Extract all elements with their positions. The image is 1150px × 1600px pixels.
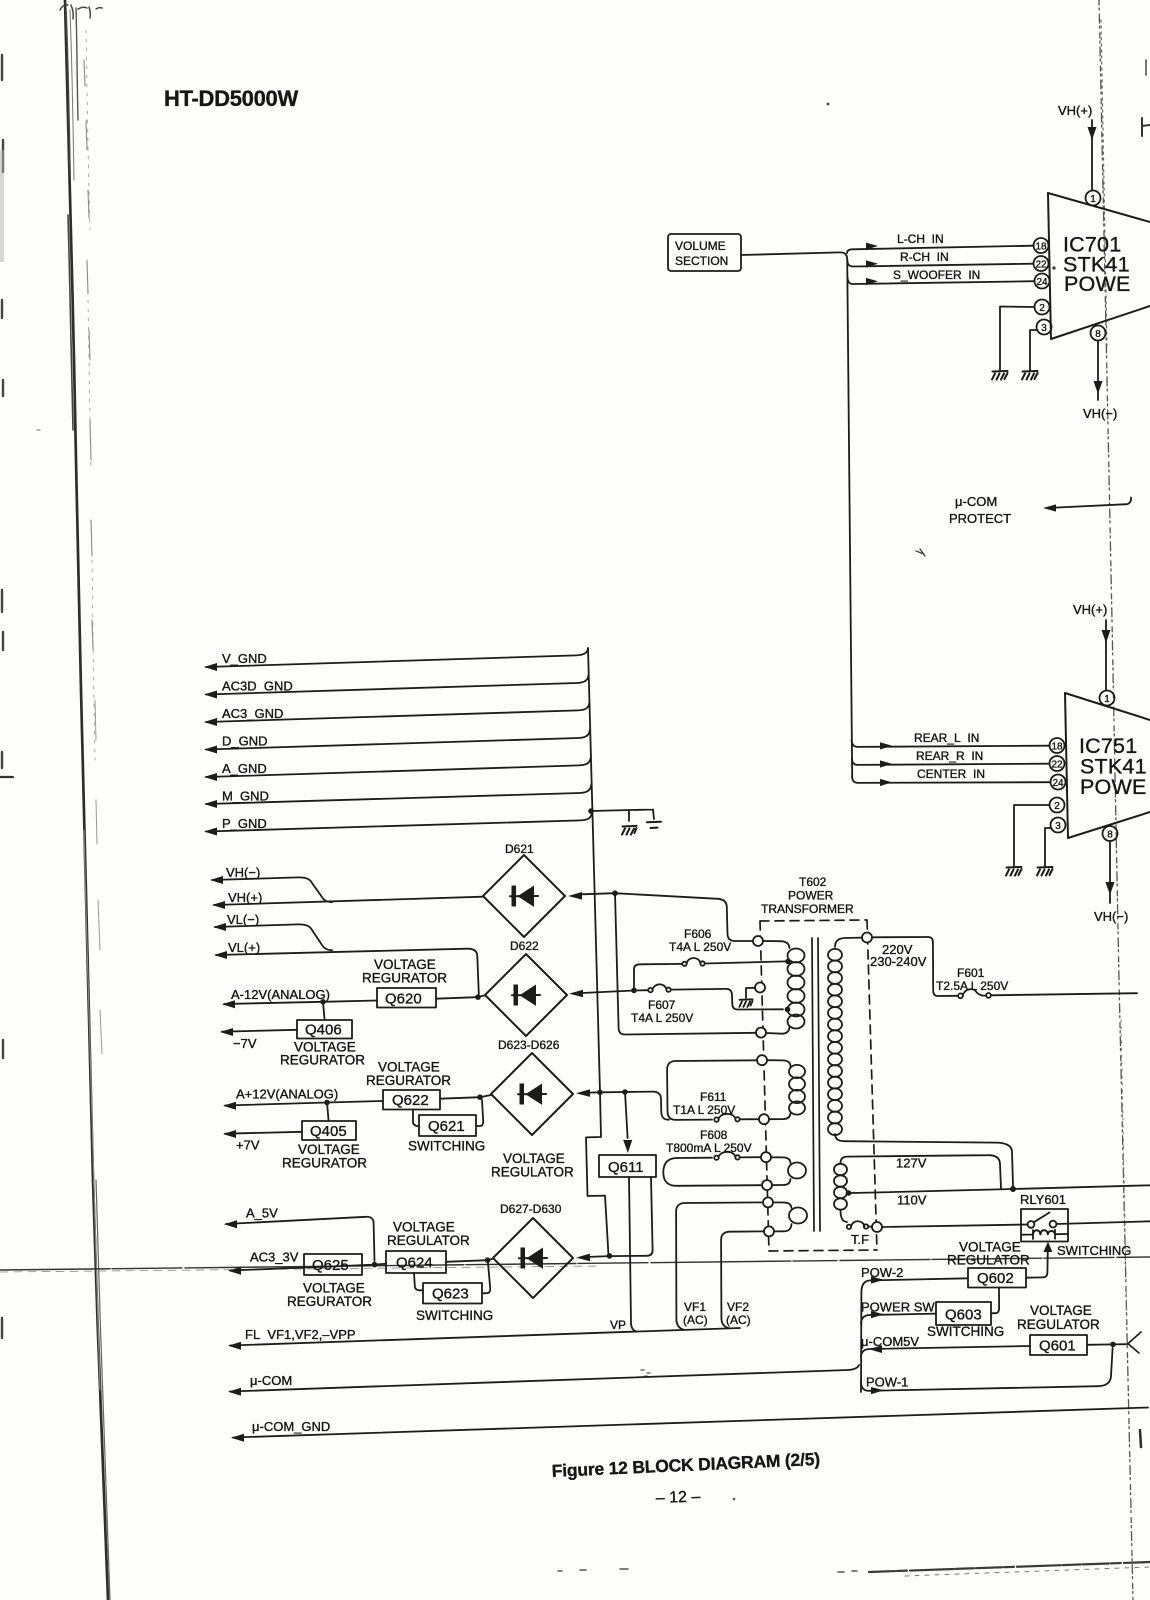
transformer winding section F608: [771, 1157, 806, 1185]
transformer winding section VF: [773, 1202, 807, 1231]
IC751 pin 22: [1050, 756, 1065, 771]
net V_GND: [204, 648, 588, 671]
svg-text:−7V: −7V: [233, 1036, 257, 1051]
fuse F608: [666, 1128, 761, 1160]
earth ground right: [647, 822, 661, 828]
wire D623 AC input: [576, 1089, 669, 1119]
wire Q611 to D627 bridge: [609, 1177, 653, 1256]
net VH(-) from IC751 pin 8: [1094, 841, 1128, 924]
node winding tap for F606: [785, 959, 791, 965]
voltage regulator Q624: [386, 1220, 470, 1274]
bridge rectifier D621: [483, 842, 565, 937]
fuse F601: [936, 966, 1008, 998]
svg-text:Q623: Q623: [432, 1286, 469, 1303]
node 110V tap: [846, 1190, 858, 1196]
IC751 pin 18: [1050, 738, 1065, 753]
svg-text:VL(−): VL(−): [227, 912, 259, 927]
net VP from Q611: [610, 1177, 637, 1332]
wire R-CH IN to pin 22: [847, 250, 1033, 268]
svg-text:VOLUME: VOLUME: [675, 239, 726, 253]
wire Q622 to D623: [440, 1095, 491, 1099]
transformer terminal T2: [755, 983, 765, 993]
wire F611 loop upper arm from transformer: [667, 1060, 757, 1120]
net VH(-) output: [210, 865, 332, 902]
svg-text:POW-1: POW-1: [866, 1375, 908, 1390]
node D622 DC junction: [475, 994, 481, 1000]
svg-text:REGURATOR: REGURATOR: [282, 1156, 367, 1171]
svg-text:18: 18: [1051, 742, 1063, 753]
IC701 pin 1: [1086, 191, 1101, 206]
svg-text:110V: 110V: [897, 1193, 927, 1208]
svg-text:RLY601: RLY601: [1020, 1192, 1066, 1207]
svg-text:2: 2: [1054, 801, 1060, 812]
svg-text:μ-COM: μ-COM: [250, 1373, 292, 1388]
wire trunk branch to REAR_L: [852, 731, 1050, 750]
transformer terminal T1: [753, 936, 763, 946]
svg-text:REGURATOR: REGURATOR: [366, 1073, 451, 1088]
svg-text:24: 24: [1052, 778, 1064, 789]
svg-text:POWER SW: POWER SW: [861, 1300, 935, 1315]
IC701 pin 8: [1091, 326, 1106, 341]
transformer winding section F611: [767, 1060, 805, 1119]
transformer terminal T8: [763, 1197, 773, 1207]
transformer terminal T4: [757, 1055, 767, 1065]
wire Q620 to D622: [436, 995, 485, 998]
net VL(+) output: [214, 940, 479, 994]
svg-text:Q624: Q624: [396, 1255, 433, 1272]
voltage regulator Q622: [366, 1060, 451, 1110]
bridge rectifier D627-D630: [493, 1202, 573, 1298]
svg-text:T.F: T.F: [851, 1232, 869, 1247]
svg-text:+7V: +7V: [236, 1138, 260, 1153]
wire trunk branch to REAR_R: [852, 749, 1050, 768]
wire D621 AC input from transformer: [568, 892, 753, 941]
svg-text:M_GND: M_GND: [222, 789, 269, 804]
IC751 pin 1: [1100, 691, 1115, 706]
voltage regulator Q625: [228, 1250, 375, 1310]
svg-text:REGURATOR: REGURATOR: [362, 971, 447, 986]
transformer core: [812, 938, 820, 1231]
transformer terminal T.F out: [872, 1222, 882, 1232]
svg-text:T800mA L 250V: T800mA L 250V: [666, 1141, 752, 1155]
wire D621 second AC leg to transformer: [615, 893, 756, 1034]
net A-12V(ANALOG): [222, 987, 377, 1008]
wire VF1 from transformer: [676, 1202, 763, 1329]
svg-text:D_GND: D_GND: [222, 734, 268, 749]
ground at IC701 pin 3: [1022, 371, 1038, 380]
net VH(+) supply to IC751 pin 1: [1073, 602, 1111, 690]
svg-text:VH(+): VH(+): [228, 890, 262, 905]
voltage regulator Q405: [282, 1103, 367, 1171]
transformer terminal T7: [762, 1180, 772, 1190]
net mu-COM: [228, 1292, 861, 1396]
wire S_WOOFER IN to pin 24: [848, 268, 1035, 285]
wire Q602 to relay switching arrow: [1026, 1242, 1131, 1278]
net +7V: [223, 1130, 302, 1153]
svg-text:F601: F601: [957, 966, 985, 980]
relay RLY601: [882, 1192, 1150, 1242]
IC701 pin 3: [1037, 320, 1052, 335]
node A_5V AC3_3V junction: [372, 1262, 378, 1268]
svg-text:18: 18: [1035, 242, 1047, 253]
svg-text:8: 8: [1107, 830, 1113, 841]
transformer secondary winding 220V: [828, 938, 1013, 1186]
ground at IC751 pin 2: [1006, 867, 1022, 876]
wire 220V mains input with fuse F601: [870, 937, 1137, 996]
IC701 pin 3 ground wire: [1030, 330, 1038, 370]
net A_GND: [204, 758, 591, 781]
IC701 pin 18: [1034, 238, 1049, 253]
svg-text:F611: F611: [700, 1090, 727, 1104]
svg-text:VOLTAGE: VOLTAGE: [1030, 1303, 1092, 1318]
svg-text:A-12V(ANALOG): A-12V(ANALOG): [231, 987, 330, 1002]
fuse T.F: [847, 1221, 872, 1247]
svg-text:24: 24: [1036, 277, 1048, 288]
wire D627 AC input arrow: [576, 1254, 609, 1262]
net AC3D_GND: [204, 675, 589, 699]
IC751 pin 2 ground wire: [1014, 805, 1050, 866]
svg-text:SECTION: SECTION: [675, 254, 728, 268]
svg-text:F608: F608: [700, 1128, 728, 1142]
svg-text:HT-DD5000W: HT-DD5000W: [164, 86, 298, 111]
svg-text:REAR_R IN: REAR_R IN: [916, 749, 983, 763]
svg-text:Q602: Q602: [977, 1270, 1014, 1287]
svg-text:REGULATOR: REGULATOR: [947, 1253, 1030, 1268]
svg-text:REGURATOR: REGURATOR: [280, 1053, 365, 1068]
svg-text:Q406: Q406: [305, 1022, 342, 1039]
svg-text:VF2: VF2: [727, 1300, 749, 1314]
net mu-COM5V branch: [861, 1334, 1030, 1357]
svg-text:T4A L 250V: T4A L 250V: [631, 1011, 693, 1025]
svg-text:SWITCHING: SWITCHING: [416, 1308, 493, 1323]
node D623 line to ground trunk: [597, 1090, 603, 1096]
svg-text:FL VF1,VF2,–VPP: FL VF1,VF2,–VPP: [245, 1327, 356, 1342]
svg-text:Q625: Q625: [312, 1257, 349, 1274]
IC751 pin 24: [1051, 775, 1066, 790]
connector break symbol: [1128, 1332, 1141, 1353]
svg-text:POWE: POWE: [1064, 272, 1131, 296]
svg-text:VP: VP: [610, 1318, 626, 1332]
node A+12V junction: [324, 1100, 330, 1106]
svg-text:SWITCHING: SWITCHING: [927, 1324, 1004, 1339]
net POW-1 branch: [861, 1348, 1113, 1394]
net VH(+) supply to IC701 pin 1: [1058, 103, 1097, 190]
wire F608 loop with bracket: [663, 1158, 760, 1186]
svg-text:VH(−): VH(−): [1094, 909, 1128, 924]
svg-text:Q601: Q601: [1039, 1338, 1076, 1355]
svg-text:T602: T602: [799, 875, 827, 889]
svg-text:CENTER IN: CENTER IN: [917, 767, 985, 781]
op-amp power amplifier IC751 STK41 POWER: [1065, 693, 1150, 838]
svg-text:μ-COM: μ-COM: [955, 494, 997, 509]
svg-text:8: 8: [1095, 329, 1101, 340]
chassis ground left: [622, 826, 637, 835]
wire VF2 from transformer: [721, 1231, 764, 1328]
svg-text:PROTECT: PROTECT: [949, 511, 1011, 526]
svg-text:Q622: Q622: [392, 1092, 429, 1109]
svg-text:(AC): (AC): [726, 1313, 751, 1327]
svg-text:TRANSFORMER: TRANSFORMER: [761, 902, 854, 916]
node 110V junction: [1010, 1186, 1016, 1192]
IC751 pin 3 ground wire: [1045, 828, 1052, 866]
voltage regulator Q602: [947, 1240, 1030, 1288]
IC701 pin 22: [1034, 256, 1049, 271]
node D621 line junction: [612, 890, 618, 896]
ground at IC701 pin 2: [992, 371, 1008, 380]
node D623 line to Q611: [622, 1089, 628, 1095]
svg-text:μ-COM5V: μ-COM5V: [861, 1334, 919, 1349]
net P_GND: [204, 813, 592, 836]
ground at IC751 pin 3: [1037, 867, 1053, 876]
net AC3_GND: [204, 703, 589, 726]
svg-text:VH(−): VH(−): [1083, 406, 1117, 421]
svg-text:μ-COM_GND: μ-COM_GND: [252, 1419, 330, 1434]
switching regulator Q623: [414, 1263, 493, 1323]
svg-text:T1A L 250V: T1A L 250V: [673, 1103, 735, 1117]
svg-text:230-240V: 230-240V: [870, 954, 927, 969]
node D623 DC junction: [477, 1094, 483, 1100]
svg-text:Q405: Q405: [310, 1123, 347, 1140]
IC701 pin 2 ground wire: [1000, 307, 1035, 371]
label F611 value: [673, 1090, 735, 1117]
transformer secondary winding 127V/110V: [834, 1155, 1001, 1222]
net 127V: [896, 1156, 927, 1171]
node Q601 output junction: [1110, 1342, 1116, 1348]
svg-text:3: 3: [1041, 323, 1047, 334]
net VH(-) from IC701 pin 8: [1083, 341, 1117, 421]
svg-text:Figure 12 BLOCK DIAGRAM (2/5): Figure 12 BLOCK DIAGRAM (2/5): [551, 1449, 820, 1481]
net mu-COM_GND: [231, 1408, 1148, 1442]
svg-text:SWITCHING: SWITCHING: [408, 1139, 485, 1154]
svg-text:VL(+): VL(+): [228, 940, 260, 955]
fuse F606: [669, 927, 731, 966]
svg-text:AC3_3V: AC3_3V: [250, 1250, 299, 1265]
svg-text:POW-2: POW-2: [861, 1265, 903, 1280]
voltage regulator Q611: [491, 1092, 656, 1180]
wire volume section to amplifier input trunk: [741, 252, 852, 777]
svg-text:D622: D622: [510, 939, 539, 953]
svg-text:1: 1: [1090, 194, 1096, 205]
node winding tap for F607: [785, 1007, 791, 1013]
svg-text:SWITCHING: SWITCHING: [1057, 1243, 1131, 1258]
svg-text:POWE: POWE: [1080, 775, 1147, 799]
node A-12V junction: [320, 999, 326, 1005]
svg-text:L-CH IN: L-CH IN: [897, 232, 944, 246]
op-amp power amplifier IC701 STK41 POWER: [1048, 193, 1150, 339]
transformer terminal T3: [756, 1028, 766, 1038]
svg-text:A_5V: A_5V: [246, 1206, 278, 1221]
node F606/F607 junction: [631, 988, 637, 994]
wire junction to ground symbols: [591, 810, 654, 822]
net POWER SW branch: [861, 1300, 936, 1325]
wire ground trunk: [588, 648, 600, 1092]
voltage regulator Q601: [1017, 1303, 1127, 1355]
svg-text:127V: 127V: [896, 1156, 927, 1171]
svg-text:REGURATOR: REGURATOR: [287, 1294, 372, 1309]
svg-text:V_GND: V_GND: [222, 651, 267, 666]
transformer primary winding section 1: [763, 941, 805, 1034]
svg-text:VH(+): VH(+): [1058, 103, 1092, 118]
svg-text:F606: F606: [684, 927, 712, 941]
node ground junction: [588, 808, 594, 814]
wire L-CH IN to pin 18: [847, 232, 1033, 253]
transformer T602: [760, 875, 877, 1251]
svg-text:T2.5A L 250V: T2.5A L 250V: [936, 979, 1008, 993]
net VH(+) output to D621: [212, 890, 483, 909]
wire Q624 to D627: [446, 1259, 493, 1262]
svg-text:REGULATOR: REGULATOR: [491, 1165, 574, 1180]
switching regulator Q621: [408, 1100, 485, 1154]
svg-text:Q611: Q611: [608, 1159, 644, 1176]
svg-text:– 12 –: – 12 –: [656, 1488, 701, 1507]
net D_GND: [204, 730, 590, 754]
volume section block: [668, 234, 741, 271]
svg-text:D621: D621: [505, 842, 534, 856]
svg-text:22: 22: [1035, 260, 1047, 271]
svg-text:Q621: Q621: [428, 1118, 465, 1135]
svg-text:VH(+): VH(+): [1073, 602, 1107, 617]
node D627 DC junction: [485, 1257, 491, 1263]
svg-text:P_GND: P_GND: [222, 816, 267, 831]
wire D622 AC input with fuse F607: [569, 989, 783, 1010]
svg-text:D627-D630: D627-D630: [500, 1202, 562, 1216]
IC701 pin 24: [1035, 274, 1050, 289]
svg-text:Q620: Q620: [385, 991, 422, 1008]
svg-text:POWER: POWER: [788, 889, 834, 903]
wire ground trunk staircase to D627 line: [586, 1092, 609, 1255]
svg-text:REGULATOR: REGULATOR: [1017, 1317, 1100, 1332]
svg-text:D623-D626: D623-D626: [498, 1038, 560, 1052]
IC701 pin 2: [1035, 300, 1050, 315]
node mu-COM PROTECT: [949, 494, 1131, 526]
voltage regulator Q620: [362, 957, 447, 1008]
svg-text:22: 22: [1051, 760, 1063, 771]
svg-text:1: 1: [1104, 694, 1110, 705]
IC751 pin 2: [1050, 798, 1065, 813]
net POW-2 branch: [861, 1265, 968, 1292]
wire Q625 to Q624: [362, 1264, 386, 1266]
svg-text:R-CH IN: R-CH IN: [900, 250, 949, 264]
wire fuse F606 branch: [634, 961, 786, 990]
svg-text:S_WOOFER IN: S_WOOFER IN: [893, 268, 980, 282]
wire terminal T2 to chassis ground: [746, 988, 755, 998]
net FL VF1,VF2,-VPP: [228, 1327, 740, 1350]
node D627 input junction: [607, 1253, 613, 1259]
svg-text:VH(−): VH(−): [226, 865, 260, 880]
svg-text:F607: F607: [648, 998, 676, 1012]
transformer terminal mains: [862, 933, 872, 943]
svg-text:VF1: VF1: [684, 1300, 706, 1314]
transformer terminal T6: [761, 1152, 771, 1162]
switching regulator Q603: [927, 1288, 1004, 1340]
svg-text:AC3_GND: AC3_GND: [222, 706, 283, 721]
fuse F611: [714, 1114, 758, 1122]
IC751 pin 8: [1103, 826, 1118, 841]
bridge rectifier D622: [485, 939, 567, 1036]
net M_GND: [204, 785, 591, 808]
svg-text:Q603: Q603: [945, 1307, 982, 1324]
svg-text:REAR_L IN: REAR_L IN: [914, 731, 979, 745]
voltage regulator Q406: [280, 1002, 365, 1068]
svg-text:A+12V(ANALOG): A+12V(ANALOG): [236, 1087, 338, 1102]
svg-text:REGULATOR: REGULATOR: [387, 1233, 470, 1248]
net 110V: [858, 1185, 1150, 1207]
bridge rectifier D623-D626: [491, 1038, 573, 1135]
fuse F607: [631, 984, 693, 1025]
svg-text:3: 3: [1055, 821, 1061, 832]
transformer terminal T9: [764, 1226, 774, 1236]
svg-text:T4A L 250V: T4A L 250V: [669, 940, 731, 954]
net VL(-) output: [213, 912, 332, 950]
net -7V: [220, 1028, 297, 1051]
svg-text:(AC): (AC): [683, 1313, 708, 1327]
chassis ground at T2: [739, 999, 752, 1007]
wire trunk branch to CENTER: [852, 767, 1051, 786]
transformer terminal T5: [759, 1114, 769, 1124]
net A+12V(ANALOG): [223, 1087, 383, 1110]
svg-text:2: 2: [1039, 303, 1045, 314]
svg-text:A_GND: A_GND: [222, 761, 267, 776]
IC751 pin 3: [1051, 818, 1066, 833]
net A_5V: [224, 1206, 375, 1262]
